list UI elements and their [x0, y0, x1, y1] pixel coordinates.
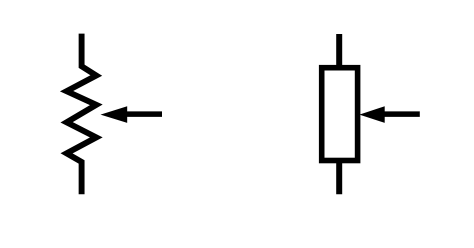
potentiometer R1 (ANSI zigzag style) — [67, 34, 97, 195]
resistor body rectangle — [322, 68, 358, 161]
wiper arrow of R1 — [101, 106, 163, 123]
wire bottom lead — [336, 160, 342, 194]
wire top lead — [336, 34, 342, 67]
wire arrow shaft — [382, 111, 420, 117]
wiper arrow of R2 — [359, 106, 419, 123]
arrowhead — [101, 106, 128, 123]
wire arrow shaft — [124, 111, 162, 117]
wire top lead + resistor zigzag body + wire bottom lead — [67, 34, 97, 195]
potentiometer R2 (IEC box style) — [322, 34, 358, 194]
arrowhead — [359, 106, 384, 123]
